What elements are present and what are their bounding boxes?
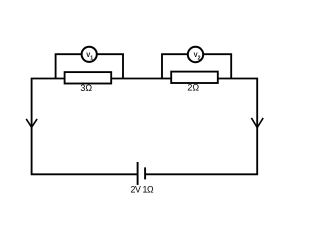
- current arrow on right wire (downward): [251, 118, 263, 128]
- wire: voltmeter V1 branch left riser and lead: [56, 54, 82, 78]
- resistor R1 (3 ohm): [65, 72, 112, 83]
- wire: right side of loop (battery to bottom-right corner, right vertical, top-right to R2): [146, 79, 258, 175]
- wire: segment between R1 and R2: [111, 78, 171, 80]
- svg-text:3Ω: 3Ω: [80, 83, 92, 93]
- svg-text:2V 1Ω: 2V 1Ω: [131, 184, 154, 194]
- svg-text:V2: V2: [194, 53, 201, 62]
- current arrow on left wire (downward): [26, 119, 37, 127]
- wire: voltmeter V2 branch left riser and lead: [162, 54, 188, 78]
- svg-text:2Ω: 2Ω: [187, 83, 199, 93]
- wire: voltmeter V2 branch right lead and riser: [203, 54, 231, 78]
- wire: left side of loop (top-left corner, left vertical, bottom-left to battery): [32, 79, 137, 175]
- svg-text:V1: V1: [86, 53, 93, 62]
- voltmeter V2 circle: [188, 47, 203, 62]
- battery cell: long positive plate: [137, 162, 139, 185]
- resistor R2 (2 ohm): [171, 72, 218, 83]
- battery cell: short negative plate: [144, 167, 146, 179]
- voltmeter V1 circle: [82, 47, 97, 62]
- wire: voltmeter V1 branch right lead and riser: [97, 54, 123, 78]
